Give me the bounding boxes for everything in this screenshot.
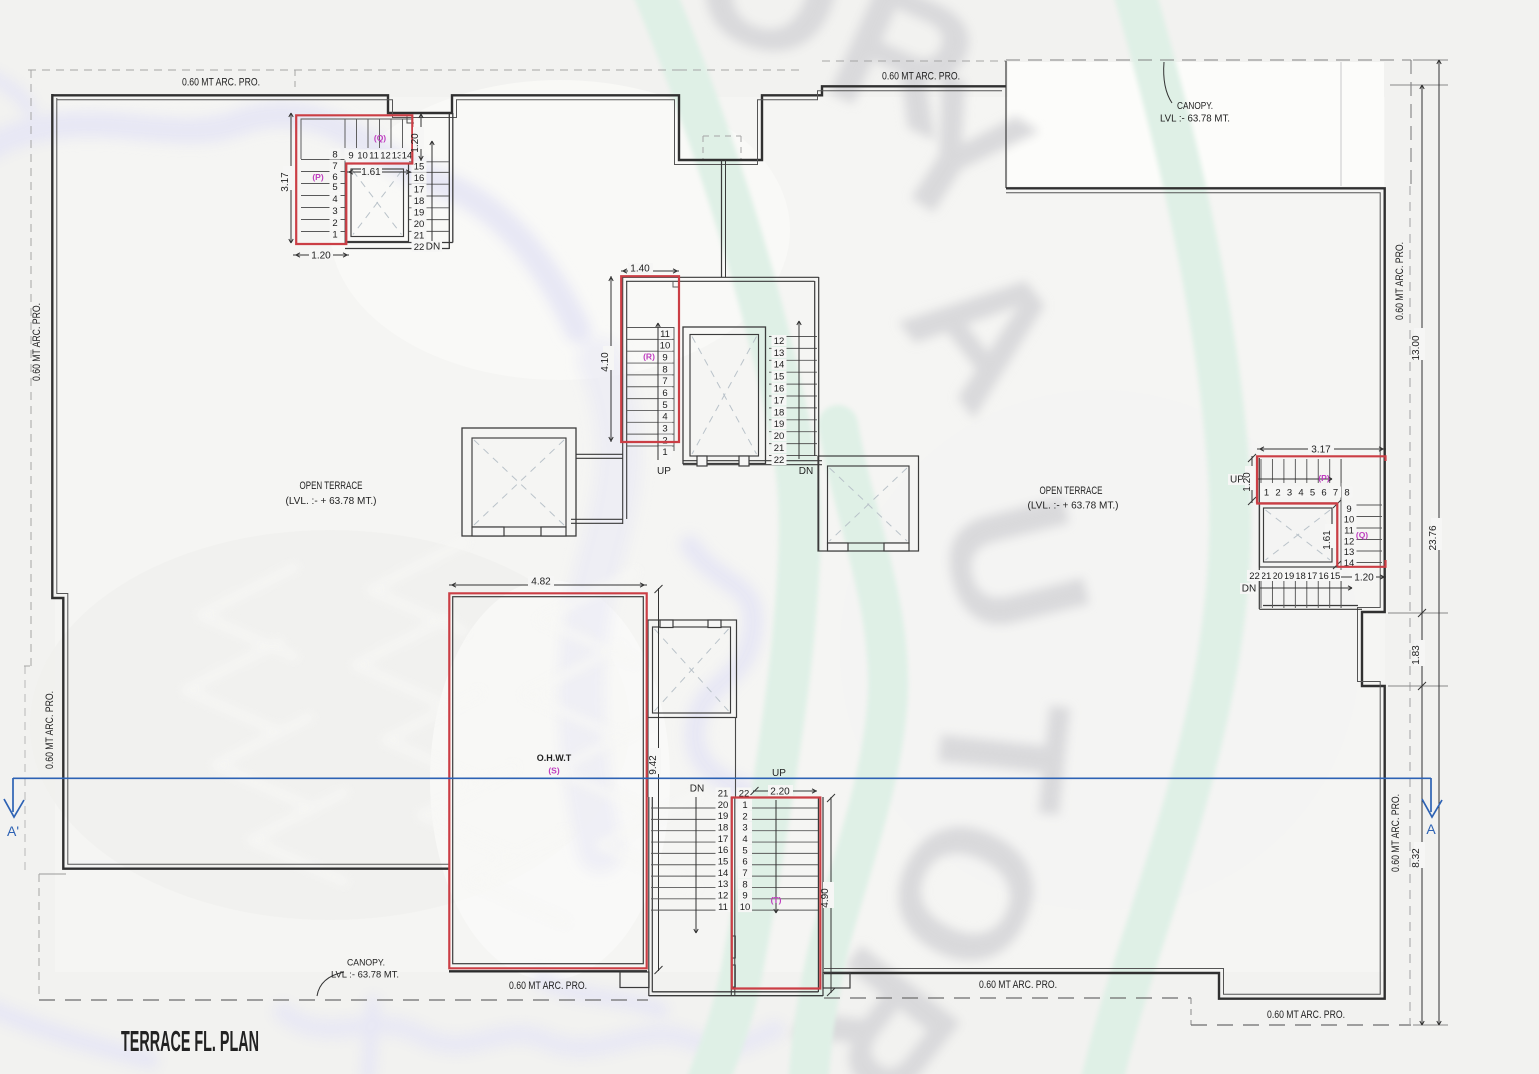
dimension line 23.76	[1438, 60, 1440, 1025]
exterior wall: right side inner thin line	[824, 193, 1380, 994]
dimension 9.42 (corridor height)	[658, 588, 660, 971]
watermark: light green ring bands	[645, 0, 1230, 1074]
svg-text:10: 10	[1344, 515, 1355, 526]
svg-text:21: 21	[1261, 571, 1272, 582]
svg-text:0.60 MT ARC. PRO.: 0.60 MT ARC. PRO.	[1394, 242, 1406, 320]
exterior wall: left side inner thin line	[57, 98, 450, 864]
svg-text:(LVL. :- + 63.78 MT.): (LVL. :- + 63.78 MT.)	[1028, 500, 1119, 512]
dashed setback boundary right	[1409, 186, 1411, 1025]
right staircase elevator shaft	[1260, 503, 1338, 567]
svg-text:21: 21	[774, 443, 785, 454]
svg-text:3: 3	[1287, 487, 1292, 498]
central staircase left flight treads	[626, 327, 674, 329]
bottom staircase right flight treads	[752, 807, 818, 809]
svg-text:12: 12	[718, 891, 729, 902]
svg-text:3: 3	[662, 423, 667, 434]
svg-text:4: 4	[332, 194, 337, 205]
central staircase red highlight	[621, 276, 679, 442]
svg-text:1.83: 1.83	[1411, 645, 1422, 665]
canopy label bottom-left	[317, 972, 344, 996]
svg-text:8.32: 8.32	[1411, 848, 1422, 868]
svg-text:19: 19	[414, 208, 425, 219]
svg-text:22: 22	[1249, 571, 1260, 582]
svg-text:(S): (S)	[548, 766, 560, 776]
bottom staircase red highlight	[732, 798, 821, 989]
elevator shaft left of centre	[462, 428, 576, 536]
svg-text:5: 5	[742, 845, 747, 856]
staircase P/Q elevator shaft	[346, 164, 409, 242]
svg-text:1: 1	[662, 447, 667, 458]
svg-text:LVL :- 63.78 MT.: LVL :- 63.78 MT.	[1160, 114, 1230, 125]
bottom staircase right flight numbers 1-10	[738, 799, 752, 810]
dashed setback boundary notch	[702, 136, 704, 159]
staircase P/Q inner landing notch	[407, 117, 414, 124]
central staircase elevator shaft	[683, 327, 766, 464]
svg-text:9.42: 9.42	[648, 755, 659, 775]
svg-text:CANOPY.: CANOPY.	[347, 958, 385, 969]
svg-text:4.10: 4.10	[600, 352, 611, 372]
svg-text:13: 13	[1344, 547, 1355, 558]
ledge walls beside bottom staircase	[620, 972, 649, 988]
svg-text:DN: DN	[1242, 584, 1256, 595]
svg-text:11: 11	[369, 150, 379, 161]
extension ticks right side	[1390, 84, 1448, 86]
svg-text:7: 7	[662, 376, 667, 387]
svg-text:15: 15	[414, 162, 425, 173]
dimension 4.10 (central staircase)	[610, 276, 612, 442]
svg-text:DN: DN	[426, 242, 440, 253]
svg-text:2: 2	[742, 811, 747, 822]
watermark: large gray letters (scan bleed-through)	[671, 0, 1131, 1074]
svg-text:LVL :- 63.78 MT.: LVL :- 63.78 MT.	[331, 970, 399, 981]
svg-text:9: 9	[662, 353, 667, 364]
svg-text:8: 8	[742, 879, 747, 890]
wall link from top notch down to central staircase	[721, 160, 723, 277]
svg-text:10: 10	[740, 902, 751, 913]
svg-text:18: 18	[718, 822, 729, 833]
svg-text:1: 1	[1264, 487, 1269, 498]
svg-text:3.17: 3.17	[1311, 445, 1331, 456]
svg-text:2: 2	[332, 218, 337, 229]
thin line below bottom-left wall	[39, 873, 66, 875]
dimension 3.17 (left of staircase P/Q)	[290, 113, 292, 243]
svg-text:6: 6	[742, 857, 747, 868]
svg-text:DN: DN	[799, 466, 813, 477]
svg-text:4.90: 4.90	[820, 888, 831, 908]
svg-text:(Q): (Q)	[1356, 530, 1368, 540]
dimension 2.20 (bottom staircase)	[753, 790, 817, 792]
svg-text:9: 9	[742, 891, 747, 902]
svg-text:20: 20	[414, 219, 425, 230]
section arrow A' (left)	[12, 778, 14, 812]
svg-text:11: 11	[1344, 526, 1354, 537]
right staircase numbers 15-22	[1328, 570, 1343, 581]
svg-text:3: 3	[742, 823, 747, 834]
bottom staircase 22 number	[737, 788, 752, 799]
dimension 4.90 (bottom staircase)	[830, 797, 832, 993]
svg-text:4: 4	[662, 412, 667, 423]
svg-text:16: 16	[1318, 571, 1329, 582]
svg-text:9: 9	[348, 150, 353, 161]
svg-text:8: 8	[1344, 487, 1349, 498]
dimension 1.61 (right staircase)	[1333, 500, 1341, 508]
svg-text:11: 11	[718, 902, 728, 913]
dimension 4.82 (O.H.W.T)	[449, 584, 647, 586]
bottom staircase left flight treads	[651, 807, 717, 809]
svg-text:1.20: 1.20	[311, 251, 331, 262]
svg-text:13: 13	[774, 348, 785, 359]
staircase P/Q left flight treads	[301, 159, 345, 161]
dimension 1.40 (central staircase)	[621, 270, 679, 272]
svg-text:OPEN TERRACE: OPEN TERRACE	[300, 480, 363, 492]
svg-text:16: 16	[414, 173, 425, 184]
svg-text:(LVL. :- + 63.78 MT.): (LVL. :- + 63.78 MT.)	[286, 495, 377, 507]
svg-text:5: 5	[332, 182, 337, 193]
svg-text:5: 5	[662, 400, 667, 411]
dimension 3.17 (right staircase top)	[1257, 448, 1386, 450]
svg-text:3.17: 3.17	[280, 172, 291, 192]
svg-text:1.61: 1.61	[1322, 530, 1333, 550]
svg-text:17: 17	[718, 834, 729, 845]
canopy left edge line	[1005, 61, 1007, 188]
dimension 1.20 (top flight width)	[420, 113, 422, 161]
svg-text:10: 10	[357, 150, 368, 161]
svg-text:6: 6	[332, 172, 337, 183]
svg-text:0.60 MT ARC. PRO.: 0.60 MT ARC. PRO.	[509, 980, 587, 992]
staircase P/Q top flight step numbers 9-14	[345, 150, 358, 161]
elevator shaft above O.H.W.T corridor	[648, 620, 737, 718]
svg-text:19: 19	[718, 811, 729, 822]
svg-text:22: 22	[774, 455, 785, 466]
staircase P/Q right flight step numbers 15-22	[412, 161, 427, 172]
corridor right wall below elevator	[735, 718, 737, 799]
svg-text:12: 12	[380, 150, 391, 161]
central staircase right flight numbers 12-22	[772, 335, 787, 346]
svg-text:0.60 MT ARC. PRO.: 0.60 MT ARC. PRO.	[182, 77, 260, 89]
walls linking left elevator to central staircase	[576, 454, 623, 458]
staircase P/Q red highlight outline	[296, 115, 412, 244]
svg-text:1.20: 1.20	[1242, 472, 1253, 492]
staircase P/Q DN label	[425, 241, 442, 252]
central staircase inner top notch	[673, 281, 679, 287]
svg-text:4: 4	[742, 834, 747, 845]
svg-text:11: 11	[660, 329, 670, 340]
svg-text:0.60 MT ARC. PRO.: 0.60 MT ARC. PRO.	[882, 71, 960, 83]
svg-text:1.20: 1.20	[1354, 573, 1374, 584]
svg-text:14: 14	[718, 868, 729, 879]
svg-text:8: 8	[662, 364, 667, 375]
staircase P/Q left flight step numbers 1-8	[330, 229, 341, 240]
dimension line 13.00 / 1.83 / 8.32	[1421, 85, 1423, 1025]
canopy label top-right	[1164, 62, 1172, 103]
svg-text:0.60 MT ARC. PRO.: 0.60 MT ARC. PRO.	[44, 691, 56, 769]
svg-text:1: 1	[742, 800, 747, 811]
svg-text:21: 21	[718, 788, 729, 799]
svg-text:18: 18	[414, 196, 425, 207]
dashed setback boundary top-left	[28, 69, 679, 71]
svg-text:20: 20	[718, 800, 729, 811]
svg-text:7: 7	[332, 161, 337, 172]
exterior wall: top (thick outer line)	[52, 86, 1006, 160]
svg-text:O.H.W.T: O.H.W.T	[537, 753, 572, 763]
svg-text:UP: UP	[657, 466, 671, 477]
svg-text:4: 4	[1298, 487, 1303, 498]
dimension 1.20 (right staircase left)	[1251, 456, 1253, 503]
svg-text:15: 15	[774, 372, 785, 383]
svg-text:A: A	[1426, 821, 1436, 837]
svg-text:18: 18	[1295, 571, 1306, 582]
dashed lower canopy outline (long dashes)	[38, 874, 40, 999]
svg-text:8: 8	[332, 149, 337, 160]
dimension 1.20 (bottom of staircase P/Q)	[293, 254, 349, 256]
bottom staircase enclosure walls	[649, 797, 653, 996]
svg-text:0.60 MT ARC. PRO.: 0.60 MT ARC. PRO.	[1267, 1009, 1345, 1021]
dashed setback boundary left	[30, 70, 32, 666]
watermark: lavender script flourishes	[0, 75, 775, 1074]
elevator shaft right of central staircase	[818, 456, 919, 551]
central staircase left flight numbers 11-1	[658, 328, 672, 339]
svg-text:17: 17	[414, 185, 425, 196]
svg-text:15: 15	[1330, 571, 1341, 582]
svg-text:19: 19	[774, 419, 785, 430]
dimension 1.61 (staircase P/Q inner)	[347, 171, 411, 173]
svg-text:(R): (R)	[643, 352, 655, 362]
right staircase top flight numbers 1-8	[1261, 487, 1272, 498]
exterior wall: left side	[52, 94, 450, 869]
O.H.W.T red highlight	[449, 593, 646, 968]
svg-text:16: 16	[774, 384, 785, 395]
svg-text:(T): (T)	[771, 895, 782, 905]
svg-text:21: 21	[414, 230, 425, 241]
svg-text:13: 13	[718, 879, 729, 890]
svg-text:22: 22	[414, 242, 425, 253]
svg-text:2: 2	[1275, 487, 1280, 498]
right staircase DN arrow	[1240, 583, 1258, 594]
bottom staircase centre wall	[731, 797, 735, 996]
svg-text:0.60 MT ARC. PRO.: 0.60 MT ARC. PRO.	[31, 303, 43, 381]
svg-text:17: 17	[1307, 571, 1318, 582]
right staircase bottom flight treads (15-22)	[1260, 580, 1262, 608]
right staircase numbers 9-14	[1342, 503, 1357, 514]
svg-text:(P): (P)	[1318, 473, 1330, 483]
svg-text:4.82: 4.82	[531, 577, 551, 588]
svg-text:OPEN TERRACE: OPEN TERRACE	[1040, 485, 1103, 497]
svg-text:(P): (P)	[312, 172, 324, 182]
watermark: white chevron fern pattern (bottom-left)	[185, 542, 695, 922]
svg-text:3: 3	[332, 206, 337, 217]
svg-text:20: 20	[1272, 571, 1283, 582]
svg-text:1.61: 1.61	[361, 167, 381, 178]
svg-text:5: 5	[1310, 487, 1315, 498]
staircase P/Q up arrow	[431, 141, 433, 241]
right staircase right-down flight treads (9-14)	[1341, 504, 1382, 506]
svg-text:16: 16	[718, 845, 729, 856]
svg-text:CANOPY.: CANOPY.	[1177, 101, 1213, 112]
section arrow A (right)	[1430, 778, 1432, 812]
svg-text:6: 6	[662, 388, 667, 399]
dashed setback boundary top-right / canopy outline	[822, 60, 1006, 62]
svg-text:7: 7	[1333, 487, 1338, 498]
svg-text:20: 20	[774, 431, 785, 442]
svg-text:12: 12	[1344, 536, 1355, 547]
svg-text:0.60 MT ARC. PRO.: 0.60 MT ARC. PRO.	[1390, 794, 1402, 872]
svg-text:A': A'	[7, 823, 19, 839]
svg-text:(Q): (Q)	[374, 133, 386, 143]
dimension 1.20 (right staircase bottom)	[1341, 576, 1386, 578]
exterior wall: right side below canopy	[824, 188, 1385, 998]
exterior wall: top inner thin line	[57, 91, 1002, 165]
svg-text:12: 12	[774, 336, 785, 347]
svg-text:2.20: 2.20	[770, 787, 790, 798]
section line A-A'	[13, 777, 1431, 779]
svg-text:UP: UP	[772, 768, 786, 779]
svg-text:1.40: 1.40	[630, 264, 650, 275]
svg-text:0.60 MT ARC. PRO.: 0.60 MT ARC. PRO.	[979, 979, 1057, 991]
scan light patches	[30, 62, 1385, 980]
svg-text:1: 1	[332, 229, 337, 240]
svg-text:9: 9	[1346, 504, 1351, 515]
central staircase UP arrow	[657, 323, 659, 460]
svg-text:13.00: 13.00	[1411, 335, 1422, 360]
svg-text:1.20: 1.20	[410, 133, 421, 153]
staircase P/Q enclosure walls (top-left)	[301, 119, 412, 159]
central staircase right flight treads	[769, 336, 817, 338]
bottom staircase left flight numbers 21-11	[716, 788, 731, 799]
staircase P/Q right flight treads	[409, 161, 449, 163]
svg-text:23.76: 23.76	[1428, 525, 1439, 550]
svg-text:7: 7	[742, 868, 747, 879]
svg-text:19: 19	[1284, 571, 1295, 582]
right staircase top flight treads	[1260, 459, 1262, 483]
svg-text:15: 15	[718, 857, 729, 868]
svg-text:14: 14	[774, 360, 785, 371]
O.H.W.T tank inner walls	[453, 597, 644, 964]
svg-text:TERRACE FL. PLAN: TERRACE FL. PLAN	[121, 1026, 259, 1058]
central staircase DN arrow	[798, 321, 800, 459]
central staircase right wall	[815, 277, 819, 551]
staircase P/Q top flight treads	[344, 119, 346, 149]
svg-text:2: 2	[662, 435, 667, 446]
right staircase UP arrow	[1228, 474, 1246, 485]
right staircase enclosure walls	[1259, 458, 1362, 609]
svg-text:17: 17	[774, 395, 785, 406]
svg-text:6: 6	[1321, 487, 1326, 498]
central staircase enclosure walls	[621, 277, 819, 281]
right staircase red highlight	[1257, 456, 1386, 567]
svg-text:18: 18	[774, 407, 785, 418]
svg-text:DN: DN	[690, 784, 704, 795]
svg-text:10: 10	[660, 341, 671, 352]
